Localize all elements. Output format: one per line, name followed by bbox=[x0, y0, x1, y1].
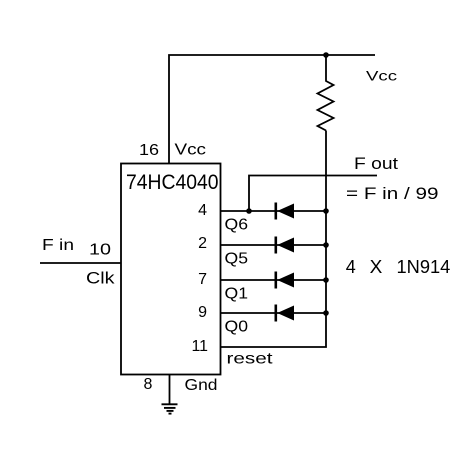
svg-text:Q6: Q6 bbox=[225, 217, 249, 234]
svg-text:2: 2 bbox=[198, 235, 207, 252]
svg-text:Vcc: Vcc bbox=[366, 68, 397, 84]
resistor R1 bbox=[318, 55, 334, 131]
svg-text:X: X bbox=[370, 257, 383, 277]
wire: Q1 row bbox=[221, 279, 327, 281]
svg-text:1N914: 1N914 bbox=[397, 257, 451, 277]
junction dot: top rail / resistor bbox=[323, 52, 329, 58]
svg-text:16: 16 bbox=[139, 142, 159, 159]
svg-text:= F in / 99: = F in / 99 bbox=[346, 184, 439, 203]
diode D1 (Q6 row) bbox=[276, 203, 294, 220]
svg-text:Vcc: Vcc bbox=[175, 142, 207, 159]
wire: Q0 row bbox=[221, 312, 327, 314]
svg-text:Clk: Clk bbox=[86, 269, 115, 288]
wire: Vcc top rail bbox=[169, 55, 375, 164]
svg-text:4: 4 bbox=[346, 257, 356, 277]
svg-text:11: 11 bbox=[192, 338, 209, 355]
junction dot: Q0 diode / rail bbox=[323, 310, 329, 316]
svg-text:7: 7 bbox=[198, 271, 207, 288]
junction dot: Q5 diode / rail bbox=[323, 242, 329, 248]
svg-text:F out: F out bbox=[354, 154, 398, 173]
wire: Q6 row bbox=[221, 210, 327, 212]
wire: Gnd pin lead bbox=[169, 375, 171, 404]
wire: F in / Clk input bbox=[40, 262, 121, 264]
IC U1 74HC4040 body bbox=[121, 164, 221, 375]
junction dot: Q6 / F out riser bbox=[246, 208, 252, 214]
svg-text:9: 9 bbox=[198, 304, 207, 321]
diode D2 (Q5 row) bbox=[276, 237, 294, 254]
svg-text:Q1: Q1 bbox=[225, 286, 249, 303]
wire: right rail from resistor to reset bbox=[221, 131, 327, 348]
svg-text:reset: reset bbox=[227, 351, 274, 368]
svg-text:8: 8 bbox=[144, 376, 153, 393]
svg-text:Q0: Q0 bbox=[225, 319, 249, 336]
diode D3 (Q1 row) bbox=[276, 272, 294, 289]
svg-text:F in: F in bbox=[42, 237, 74, 254]
wire: F out line bbox=[249, 176, 377, 212]
diode D4 (Q0 row) bbox=[276, 305, 294, 322]
svg-text:4: 4 bbox=[198, 202, 207, 219]
junction dot: Q6 diode / rail bbox=[323, 208, 329, 214]
svg-text:Gnd: Gnd bbox=[185, 377, 218, 394]
ground symbol bbox=[162, 404, 178, 413]
svg-text:Q5: Q5 bbox=[225, 251, 249, 268]
svg-text:10: 10 bbox=[89, 242, 111, 259]
junction dot: Q1 diode / rail bbox=[323, 277, 329, 283]
svg-text:74HC4040: 74HC4040 bbox=[126, 171, 219, 194]
wire: Q5 row bbox=[221, 244, 327, 246]
